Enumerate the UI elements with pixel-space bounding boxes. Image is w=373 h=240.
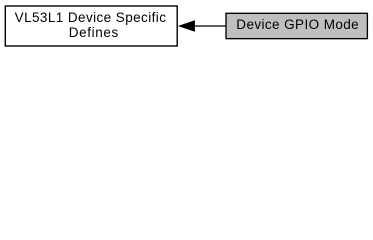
svg-text:Device GPIO Mode: Device GPIO Mode <box>236 17 358 32</box>
svg-text:Defines: Defines <box>69 25 119 40</box>
svg-text:VL53L1 Device Specific: VL53L1 Device Specific <box>15 10 167 25</box>
